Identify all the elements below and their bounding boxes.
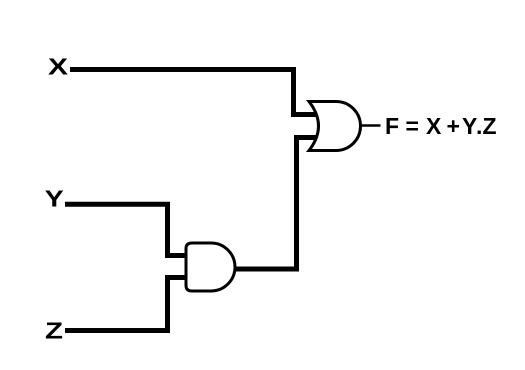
wire OR gate output — [360, 124, 381, 127]
wire X input to OR gate top input — [70, 70, 318, 115]
OR gate — [309, 102, 361, 151]
svg-text:F=X+Y.Z: F=X+Y.Z — [385, 113, 497, 139]
svg-text:X: X — [48, 54, 69, 80]
svg-text:Y: Y — [45, 186, 64, 212]
wire AND gate output to OR gate bottom input — [236, 138, 317, 270]
svg-text:Z: Z — [45, 318, 63, 344]
wire Z input to AND gate bottom input — [65, 278, 188, 331]
wire Y input to AND gate top input — [65, 204, 188, 255]
AND gate — [186, 243, 235, 291]
